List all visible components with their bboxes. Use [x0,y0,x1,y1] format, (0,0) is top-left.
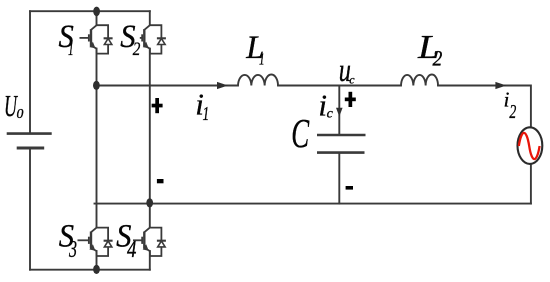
wire: AC source bottom lead [530,164,532,204]
svg-text:1: 1 [68,39,74,60]
wire: leg B bottom segment (S4 emitter to bottom rail) [149,251,151,270]
wire: capacitor bottom lead to return rail [338,154,340,204]
wire: left vertical from top rail down to battery positive plate [29,11,31,132]
voltage source U0 battery positive plate [7,132,52,135]
label S2 [120,19,140,60]
svg-text:2: 2 [433,47,443,71]
arrow: current i2 after L2 [495,82,506,89]
svg-text:1: 1 [259,50,265,69]
label S1 [59,19,74,60]
transistor S3 (IGBT with antiparallel diode) [78,227,113,256]
wire: leg B middle segment (S2 emitter through node B to S4) [149,49,151,228]
label U0 [4,89,24,123]
polarity + at capacitor [345,92,356,107]
capacitor C top plate [317,134,366,137]
svg-text:C: C [291,111,309,156]
wire: L1 to L2 through node uc [278,85,401,87]
wire: capacitor top lead from node uc [338,86,340,135]
transistor S1 (IGBT with antiparallel diode) [80,24,113,53]
label uc (capacitor voltage) [339,53,355,89]
svg-text:4: 4 [127,237,136,263]
svg-text:c: c [327,107,334,122]
wire: leg B collector lead (top rail to S2) [149,11,151,25]
junction node A: bridge + output [93,81,100,90]
voltage source U0 battery negative plate [17,147,45,150]
wire: leg A bottom segment (S3 emitter to bottom rail) [96,251,98,270]
wire: return (-) rail from bridge to AC source [95,203,531,205]
arrow: capacitor current ic (down along capacitor lead) [336,108,343,117]
transistor S2 (IGBT with antiparallel diode) [140,24,166,53]
polarity - at bridge output [157,179,164,183]
polarity + at bridge output [152,98,163,113]
wire: leg A lower segment (node A down to S3 collector) [96,86,98,228]
wire: leg A collector lead (top rail to S1) [96,11,98,25]
wire: + output from node A to L1 [97,85,239,87]
inductor L2 coil [401,75,438,86]
svg-text:0: 0 [17,106,24,121]
polarity - at capacitor [346,186,353,190]
label ic (capacitor current) [318,88,333,123]
AC source (grid) circle [518,127,543,164]
capacitor C bottom plate [317,151,365,154]
junction node B: bridge - output [146,198,153,207]
svg-text:2: 2 [509,101,516,123]
wire: L2 to right corner and down to AC source [438,86,531,128]
label S3 [59,219,77,264]
wire: left vertical from battery negative plate down to bottom rail [29,149,31,270]
label L1 [245,29,264,69]
svg-text:3: 3 [68,237,77,263]
wire: top rail from battery + to S2 collector [30,10,150,12]
label i1 (inverter-side current) [195,87,209,126]
AC source sine wave [519,133,540,159]
arrow: current i1 on + output wire [217,82,228,89]
transistor S4 (IGBT with antiparallel diode) [133,227,166,256]
junction node: top rail / S1 collector [93,7,100,17]
svg-text:c: c [349,73,355,87]
wire: leg A midpoint segment (S1 emitter to node A) [96,49,98,86]
junction node: bottom rail / S3 emitter [93,265,100,274]
label S4 [116,219,136,264]
label L2 [417,29,443,70]
svg-text:1: 1 [203,103,210,125]
inductor L1 coil [238,75,278,86]
label i2 (grid-side current) [504,89,517,123]
svg-text:2: 2 [133,40,141,60]
wire: bottom rail from battery branch to S4 emitter [30,269,150,271]
